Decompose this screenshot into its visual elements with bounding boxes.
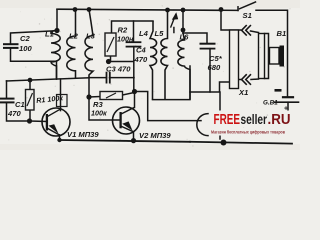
wire C1 bottom to base node (7, 102, 30, 121)
wire C4 top lead (133, 21, 135, 42)
resistor R1 (26, 33, 123, 110)
svg-text:S1: S1 (243, 11, 252, 20)
svg-text:L6: L6 (180, 33, 190, 42)
node R1 top junction (28, 78, 33, 83)
node rail-L6 junction (181, 8, 186, 13)
node C3-R3-V2base junction (86, 94, 91, 99)
wire top rail left segment (57, 9, 221, 10)
capacitor C4 plates (127, 41, 141, 43)
wire tank feed riser to rail (219, 92, 221, 139)
inductor L1 loops (51, 10, 190, 100)
svg-text:100н: 100н (117, 35, 134, 44)
transistor V2 (113, 107, 140, 134)
battery GB1 minus dash (275, 89, 282, 92)
svg-text:.RU: .RU (268, 111, 291, 128)
transformer winding B rectangle (259, 34, 265, 79)
wire L4 L5 L6 bottom link (153, 66, 191, 100)
svg-text:L1: L1 (45, 30, 54, 39)
wire L1 bottom lead (56, 61, 58, 79)
wire node down to V2 base node (88, 78, 90, 97)
svg-text:G.B1: G.B1 (263, 99, 278, 106)
wire R1 bottom lead (29, 110, 31, 121)
svg-text:100к: 100к (91, 109, 107, 118)
logo arc (197, 114, 208, 136)
node rail-L2 junction (73, 7, 78, 12)
wire C4 bottom vertical chain (133, 47, 135, 92)
svg-text:R2: R2 (118, 26, 128, 35)
svg-text:100: 100 (19, 44, 32, 53)
capacitor C2 leads (11, 31, 56, 44)
wire V1 collector (60, 79, 62, 111)
wire R3 left lead (89, 96, 100, 99)
speaker B1 magnet (280, 46, 285, 67)
wire R2 C4 L4 top link (112, 21, 154, 33)
wire R1 top lead (29, 80, 31, 89)
svg-text:V1 МП39: V1 МП39 (67, 130, 99, 139)
inductor L2 loops (67, 10, 76, 79)
node V2 emitter rail junction (131, 138, 136, 143)
wire L6 tank bottom (190, 82, 230, 92)
battery GB1 bottom stub (287, 102, 289, 111)
wire X1 top feed (221, 10, 241, 31)
variometer arrow line (171, 15, 176, 28)
svg-text:L3: L3 (86, 32, 96, 41)
wire X1 bottom side link (239, 79, 242, 81)
node rail-L5 junction (165, 8, 170, 13)
wire bottom rail (59, 140, 190, 142)
svg-text:C1: C1 (15, 100, 25, 109)
svg-text:X1: X1 (238, 88, 248, 97)
wire R2 bottom lead (110, 56, 112, 62)
wire C2 bottom to L1 bottom (11, 48, 57, 61)
connector X1 top chevrons (242, 26, 247, 35)
wire V1 emitter down to rail (59, 135, 61, 140)
capacitor C2 plates (4, 43, 18, 45)
node L1 top junction (54, 28, 59, 33)
node R2-C4 junction (106, 59, 111, 64)
variometer stub (173, 28, 175, 33)
svg-text:Магазин бесплатных цифровых то: Магазин бесплатных цифровых товаров (211, 129, 285, 135)
speaker B1 lead line (265, 34, 269, 79)
wire long bias wire (7, 78, 90, 81)
node rail-L3 junction (87, 7, 92, 12)
svg-text:L2: L2 (69, 32, 79, 41)
wire L6 top drop (182, 10, 184, 33)
resistor R2 (105, 33, 116, 56)
svg-text:C5*: C5* (209, 54, 223, 63)
capacitor C5 plates (201, 43, 215, 45)
wire top rail right segment after switch (256, 10, 288, 96)
wire C1 top lead (6, 81, 8, 99)
svg-text:L4: L4 (139, 29, 149, 38)
inductor L5 loops (161, 10, 168, 100)
inductor L6 loops (178, 33, 190, 100)
node V2 collector junction (132, 89, 137, 94)
svg-text:470: 470 (7, 109, 21, 118)
svg-text:V2 МП39: V2 МП39 (139, 131, 171, 140)
wire C3 right lead (110, 77, 135, 79)
wire C3 left lead (89, 77, 107, 79)
switch S1 left contact tick (237, 7, 239, 11)
svg-text:B1: B1 (277, 29, 287, 38)
node tank rail junction (221, 140, 227, 146)
svg-text:C3 470: C3 470 (106, 65, 131, 74)
capacitor C3 plates (106, 73, 108, 83)
node rail-X1 junction (219, 7, 224, 12)
battery GB1 long plate (275, 101, 299, 103)
svg-text:680: 680 (208, 63, 221, 72)
paper background (0, 0, 300, 150)
scan speckle (8, 5, 290, 146)
wire R2 node to C4 chain (109, 61, 134, 63)
battery GB1 top lead touches short plate (283, 96, 293, 98)
svg-text:470: 470 (134, 55, 148, 64)
wire C5 bottom lead (209, 49, 211, 92)
logo FREEseller.RU (211, 111, 299, 136)
inductor L4 loops (150, 21, 157, 100)
wire X1 top side link (251, 31, 259, 33)
transistor V1 (42, 108, 70, 136)
wire R3 right lead (123, 93, 135, 96)
collector label box (57, 95, 68, 107)
wire rail corner down to L1 top (56, 10, 58, 31)
svg-text:FREE: FREE (214, 111, 241, 128)
wire V1 base lead (30, 120, 47, 123)
svg-text:L5: L5 (155, 29, 165, 38)
speaker B1 open box (270, 48, 280, 65)
switch S1 blade (240, 2, 256, 9)
svg-text:C2: C2 (20, 34, 30, 43)
capacitor C1 plates (1, 98, 14, 100)
connector X1 bottom chevrons (242, 75, 247, 84)
wire V2 emitter to rail (133, 132, 135, 141)
wire V2 collector riser (134, 92, 136, 108)
node L6-C5 junction (181, 28, 186, 33)
inductor L3 loops (85, 10, 93, 78)
resistor R3 (100, 92, 123, 100)
node V1 base junction (27, 118, 32, 123)
transformer winding A rectangle (230, 30, 239, 89)
wire collector node to bend (134, 92, 201, 121)
wire V2 base feed (89, 97, 121, 120)
svg-text:C4: C4 (136, 46, 146, 55)
wire L6 top to C5 (183, 33, 207, 44)
arrow head variometer (172, 12, 178, 20)
node V1 emitter rail junction (57, 138, 61, 142)
